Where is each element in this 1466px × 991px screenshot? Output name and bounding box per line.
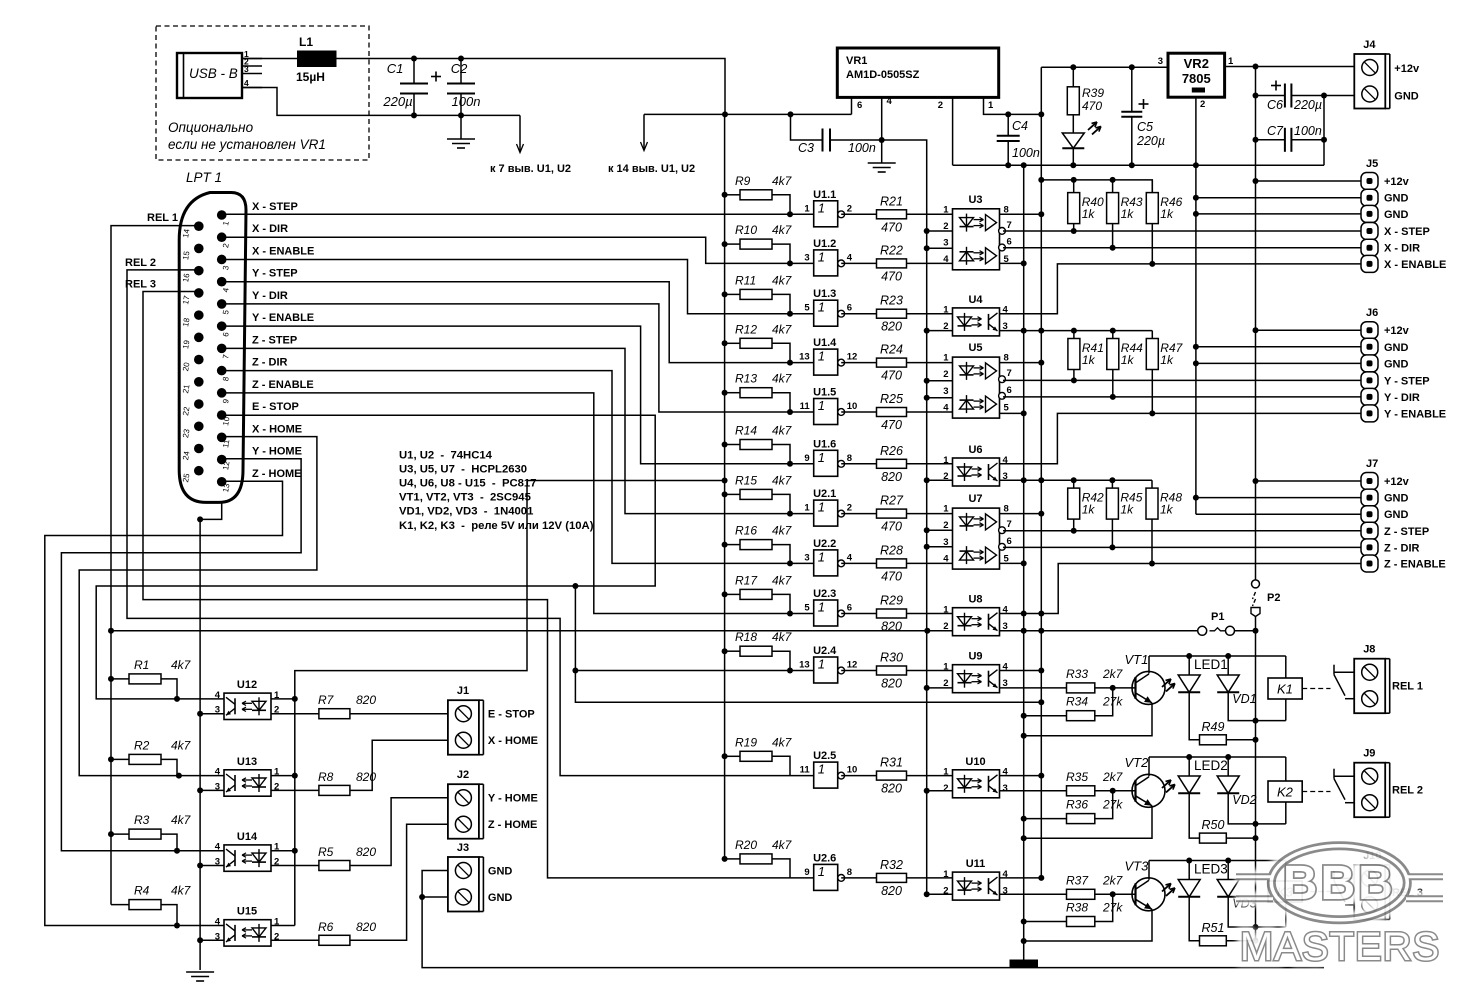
svg-text:U12: U12 <box>237 679 257 691</box>
inverter gate U2.3 <box>804 588 852 626</box>
J6 +12 wire <box>1256 329 1362 331</box>
R40 group rail <box>1041 180 1152 193</box>
wire U2.5 output to R31 <box>841 775 876 777</box>
svg-text:4: 4 <box>244 78 249 88</box>
svg-text:R37: R37 <box>1066 873 1089 887</box>
wire LPT pin3 to U1.3 <box>222 259 814 313</box>
svg-text:6: 6 <box>1007 536 1012 547</box>
svg-text:VD1, VD2, VD3 - 1N4001: VD1, VD2, VD3 - 1N4001 <box>399 506 533 518</box>
jumper P2 <box>1251 580 1280 617</box>
U8 pin3 to P1 row <box>1000 630 1024 632</box>
REL labels <box>125 212 178 291</box>
svg-text:R18: R18 <box>735 630 757 644</box>
LPT ground stub <box>200 502 222 970</box>
wire R20 leads <box>725 858 740 860</box>
+5V host vertical rail <box>724 114 726 859</box>
R11 <box>735 273 793 299</box>
svg-text:4k7: 4k7 <box>171 813 192 827</box>
svg-text:J5: J5 <box>1366 158 1378 170</box>
wire R27 to optocoupler <box>907 513 953 515</box>
svg-text:1: 1 <box>943 662 949 673</box>
transistor VT1 <box>1125 652 1166 705</box>
svg-text:1: 1 <box>818 200 825 215</box>
svg-text:U10: U10 <box>965 756 985 768</box>
svg-text:1: 1 <box>818 349 825 364</box>
svg-text:VT1: VT1 <box>1125 652 1149 667</box>
svg-text:R51: R51 <box>1202 921 1225 935</box>
svg-text:R16: R16 <box>735 524 757 538</box>
junction rail LED1 <box>1186 653 1231 659</box>
wire U1.2 output to R22 <box>841 262 876 264</box>
junction dots USB filter <box>411 56 464 119</box>
U5 pin5 stub <box>1000 412 1024 414</box>
resistor R35 <box>1066 770 1124 796</box>
svg-text:4k7: 4k7 <box>772 322 793 336</box>
svg-text:U2.5: U2.5 <box>813 750 836 762</box>
LED LED2 <box>1160 757 1227 794</box>
svg-text:U11: U11 <box>966 858 986 870</box>
svg-text:220µ: 220µ <box>382 94 412 109</box>
junction E-STOP <box>174 583 578 702</box>
svg-text:4k7: 4k7 <box>171 658 192 672</box>
svg-text:LED1: LED1 <box>1194 657 1228 672</box>
wires R8 to J1 X-HOME <box>271 789 319 791</box>
J6 GND wires <box>1196 346 1361 348</box>
wire LED1 to R49 <box>1189 692 1199 740</box>
R27 <box>877 494 907 534</box>
svg-text:P1: P1 <box>1211 611 1224 623</box>
optocoupler U6 <box>943 444 1008 486</box>
VR2 pin2 to iso gnd <box>1195 97 1197 165</box>
R19 <box>735 735 793 761</box>
wire VT1 emitter <box>1024 703 1152 736</box>
arrow to pin 7 of U1 U2 <box>490 115 571 175</box>
svg-text:R39: R39 <box>1082 86 1104 100</box>
R2 <box>129 738 192 764</box>
host gnd vertical rail <box>926 231 928 894</box>
svg-text:1: 1 <box>818 398 825 413</box>
svg-text:U5: U5 <box>968 342 982 354</box>
svg-text:GND: GND <box>488 892 513 904</box>
host gnd rail top segment <box>882 140 927 231</box>
svg-text:U4: U4 <box>968 294 983 306</box>
wire USB pin4 to gnd row <box>242 88 520 116</box>
inverter gate U2.6 <box>804 852 852 890</box>
svg-text:Y - DIR: Y - DIR <box>252 290 288 302</box>
R3 <box>129 813 192 839</box>
wire P1 row from REL1 <box>111 630 953 632</box>
svg-text:+12v: +12v <box>1384 476 1410 488</box>
svg-text:R23: R23 <box>880 294 903 308</box>
svg-text:4: 4 <box>943 402 949 413</box>
junctions top rails <box>1021 64 1199 168</box>
diode VD2 <box>1217 757 1256 807</box>
svg-text:7: 7 <box>1007 220 1012 231</box>
wire LPT pin4 to U1.4 <box>222 282 814 363</box>
wire U2.2 output to R28 <box>841 562 876 564</box>
svg-text:R24: R24 <box>880 343 903 357</box>
svg-text:1: 1 <box>818 762 825 777</box>
svg-text:K1: K1 <box>1277 682 1293 697</box>
svg-text:470: 470 <box>881 269 902 283</box>
wire R50 to +12 rail <box>1226 837 1255 839</box>
svg-text:R14: R14 <box>735 424 757 438</box>
svg-text:R32: R32 <box>880 858 903 872</box>
svg-text:R19: R19 <box>735 735 757 749</box>
svg-text:100n: 100n <box>452 94 481 109</box>
R12 <box>735 322 793 348</box>
wire R2 leads <box>111 758 129 760</box>
optocoupler U4 <box>943 294 1008 336</box>
svg-text:AM1D-0505SZ: AM1D-0505SZ <box>846 69 920 81</box>
resistor R50 <box>1200 818 1227 843</box>
R32 <box>877 858 907 898</box>
svg-text:1: 1 <box>804 503 810 514</box>
optocoupler U3 <box>943 194 1012 270</box>
svg-text:820: 820 <box>881 782 902 796</box>
svg-text:X - ENABLE: X - ENABLE <box>1384 259 1446 271</box>
svg-text:R7: R7 <box>318 693 335 707</box>
svg-text:U14: U14 <box>237 831 258 843</box>
svg-text:R30: R30 <box>880 651 903 665</box>
resistor R39 <box>1067 67 1104 115</box>
svg-text:C5: C5 <box>1137 120 1153 134</box>
R41 <box>1068 339 1104 370</box>
svg-text:820: 820 <box>356 770 376 784</box>
wire R12 leads <box>725 342 740 344</box>
wire LPT pin7 to U2.1 <box>222 348 814 513</box>
svg-text:VR1: VR1 <box>846 55 867 67</box>
svg-text:470: 470 <box>881 369 902 383</box>
U5 pin8 stub <box>1000 362 1042 364</box>
svg-text:R31: R31 <box>880 756 903 770</box>
svg-text:Y - STEP: Y - STEP <box>252 268 298 280</box>
svg-text:820: 820 <box>881 884 902 898</box>
optocoupler U11 <box>943 858 1008 900</box>
junctions row 480 <box>1021 477 1116 483</box>
optocoupler U7 <box>943 493 1012 569</box>
svg-text:R1: R1 <box>134 658 149 672</box>
R44 <box>1107 339 1143 370</box>
R16 <box>735 524 793 550</box>
svg-text:R50: R50 <box>1202 818 1225 832</box>
svg-text:1: 1 <box>818 549 825 564</box>
svg-text:R13: R13 <box>735 372 757 386</box>
svg-text:6: 6 <box>847 603 852 614</box>
resistor R5 <box>318 845 376 871</box>
resistor R7 <box>318 693 376 719</box>
wire R19 leads <box>725 755 740 757</box>
svg-text:1k: 1k <box>1082 503 1096 517</box>
wire LPT pin5 to U1.5 <box>222 304 814 412</box>
svg-text:4: 4 <box>847 552 853 563</box>
diode VD3 <box>1217 861 1256 911</box>
svg-text:2: 2 <box>1200 99 1205 110</box>
svg-text:VT2: VT2 <box>1125 755 1150 770</box>
svg-text:470: 470 <box>881 418 902 432</box>
svg-text:220µ: 220µ <box>1136 134 1165 148</box>
wire REL1 vertical <box>111 226 199 905</box>
relay contact REL 2 <box>1334 769 1354 803</box>
wire R31 to optocoupler <box>907 775 953 777</box>
VR2 regulator 7805 <box>1158 53 1234 110</box>
inverter gate U2.4 <box>799 645 857 683</box>
svg-text:R6: R6 <box>318 920 334 934</box>
svg-text:1: 1 <box>943 869 949 880</box>
U3 pin6 X-DIR row <box>1003 247 1361 249</box>
svg-text:X - HOME: X - HOME <box>488 735 538 747</box>
svg-text:C3: C3 <box>798 141 814 155</box>
svg-text:E - STOP: E - STOP <box>488 709 535 721</box>
svg-text:GND: GND <box>1384 342 1409 354</box>
svg-text:1: 1 <box>1228 56 1234 67</box>
svg-text:7: 7 <box>1007 368 1012 379</box>
svg-text:GND: GND <box>488 866 513 878</box>
svg-text:Y - STEP: Y - STEP <box>1384 375 1430 387</box>
wire R16 leads <box>725 544 740 546</box>
capacitor C7 <box>1256 124 1325 152</box>
svg-text:4k7: 4k7 <box>772 223 793 237</box>
U7 pin6 Z-DIR row <box>1003 546 1361 548</box>
wire Z-HOME LPT pin13 loop to U15 <box>45 481 283 925</box>
junction C4 <box>1005 111 1044 168</box>
svg-text:4k7: 4k7 <box>772 424 793 438</box>
relay coil K3 <box>1268 881 1302 902</box>
svg-text:к 14 выв. U1, U2: к 14 выв. U1, U2 <box>608 163 695 175</box>
svg-text:R35: R35 <box>1066 770 1088 784</box>
R28 <box>877 543 907 583</box>
capacitor C6 <box>1256 81 1325 113</box>
inverter gate U2.5 <box>800 750 858 788</box>
svg-text:U1.6: U1.6 <box>813 438 836 450</box>
junctions R35 <box>1021 788 1116 822</box>
wire R33 R34 to base <box>1000 687 1067 689</box>
svg-text:3: 3 <box>244 64 249 74</box>
resistor R51 <box>1200 921 1227 946</box>
inverter gate U2.1 <box>804 488 852 526</box>
svg-text:REL 2: REL 2 <box>125 257 156 269</box>
svg-text:U1.3: U1.3 <box>813 288 836 300</box>
wires J3 gnd <box>422 871 1324 968</box>
wire U1.5 output to R25 <box>841 411 876 413</box>
svg-text:VT1, VT2, VT3 - 2SC945: VT1, VT2, VT3 - 2SC945 <box>399 492 531 504</box>
connector J7 <box>1361 458 1446 572</box>
svg-text:220µ: 220µ <box>1293 98 1322 112</box>
junction anode riser <box>292 478 728 854</box>
svg-text:J2: J2 <box>457 769 469 781</box>
svg-text:GND: GND <box>1384 509 1409 521</box>
inverter gate U1.6 <box>804 438 852 476</box>
wire U12 pin1 stub <box>271 698 295 700</box>
svg-text:U1.4: U1.4 <box>813 337 837 349</box>
svg-text:Z - ENABLE: Z - ENABLE <box>1384 559 1446 571</box>
svg-text:6: 6 <box>1007 385 1012 396</box>
svg-text:4k7: 4k7 <box>772 174 793 188</box>
transistor VT3 <box>1125 858 1166 911</box>
LPT signal labels <box>252 201 314 480</box>
svg-text:820: 820 <box>881 470 902 484</box>
inductor L1 <box>296 35 337 84</box>
wire LPT pin9 to U2.3 <box>222 393 814 614</box>
svg-text:E - STOP: E - STOP <box>252 401 299 413</box>
wires R6 to J2 Z-HOME <box>271 939 319 941</box>
inverter gate U2.2 <box>804 538 852 576</box>
R47 <box>1146 339 1183 370</box>
capacitor C1 <box>382 59 441 116</box>
svg-text:1: 1 <box>818 450 825 465</box>
svg-text:2: 2 <box>943 621 948 632</box>
svg-text:820: 820 <box>356 920 376 934</box>
svg-text:GND: GND <box>1384 209 1409 221</box>
svg-text:U2.1: U2.1 <box>813 488 836 500</box>
R1 <box>129 658 192 684</box>
wire LPT pin8 to U2.2 <box>222 371 814 564</box>
svg-text:R21: R21 <box>880 194 903 208</box>
svg-text:100n: 100n <box>1012 146 1040 160</box>
svg-text:R20: R20 <box>735 838 757 852</box>
optocoupler U5 <box>943 342 1012 418</box>
text optional note <box>168 120 326 152</box>
wire R37 R38 to base <box>1000 893 1067 895</box>
wire REL3 loop to U2.6 <box>143 292 814 878</box>
wire E-STOP branch to U2.4 and E-STOP main <box>575 586 1041 702</box>
svg-text:1k: 1k <box>1160 503 1174 517</box>
svg-text:2k7: 2k7 <box>1102 873 1124 887</box>
svg-text:8: 8 <box>847 867 852 878</box>
U7 pin5 stub <box>1000 562 1024 564</box>
svg-text:C1: C1 <box>387 61 404 76</box>
svg-text:4k7: 4k7 <box>772 630 793 644</box>
wire R28 to optocoupler <box>907 562 953 564</box>
wire Y-HOME LPT pin12 loop to U14 <box>61 459 301 851</box>
R30 <box>877 651 907 691</box>
wire R24 to optocoupler <box>907 362 953 364</box>
svg-text:U7: U7 <box>968 493 982 505</box>
J5 +12 wire <box>1256 180 1362 182</box>
wire LPT pin1 X-STEP to U1.1 <box>222 213 814 215</box>
svg-text:5: 5 <box>804 603 810 614</box>
R26 <box>877 444 907 484</box>
LPT left column pins 14-25 <box>181 221 203 483</box>
+12 rail lower after P2 <box>1255 617 1257 941</box>
svg-text:GND: GND <box>1394 91 1419 103</box>
U11 pin4 stub <box>1000 877 1042 879</box>
svg-text:1: 1 <box>818 864 825 879</box>
svg-text:J8: J8 <box>1363 644 1375 656</box>
svg-text:4: 4 <box>847 252 853 263</box>
svg-text:VR2: VR2 <box>1184 56 1209 71</box>
wire R17 leads <box>725 593 740 595</box>
rail above LED3 <box>1149 860 1286 862</box>
svg-text:6: 6 <box>1007 237 1012 248</box>
connector J3 <box>448 842 513 912</box>
svg-text:X - DIR: X - DIR <box>252 223 288 235</box>
svg-text:R3: R3 <box>134 813 150 827</box>
svg-text:9: 9 <box>804 867 809 878</box>
svg-text:GND: GND <box>1384 493 1409 505</box>
wire LPT pin2 to U1.2 <box>222 237 814 263</box>
connector J9 <box>1354 748 1390 818</box>
wire R49 to +12 rail <box>1226 739 1255 741</box>
VR1 DC-DC converter <box>837 48 1041 165</box>
svg-text:VD2: VD2 <box>1232 793 1256 807</box>
wire VD2 bottom row <box>1228 793 1286 824</box>
svg-text:K2: K2 <box>1277 785 1294 800</box>
resistor R8 <box>318 770 376 795</box>
R15 <box>735 473 793 499</box>
svg-text:10: 10 <box>847 401 858 412</box>
svg-text:12: 12 <box>847 352 858 363</box>
svg-text:Y - HOME: Y - HOME <box>488 793 538 805</box>
svg-text:11: 11 <box>800 401 811 412</box>
U4 pin3 emitter rail to R41 group <box>1000 330 1153 332</box>
J7 GND wires <box>1196 497 1361 499</box>
U5 pin6 Y-DIR row <box>1003 396 1361 398</box>
svg-text:J9: J9 <box>1363 748 1375 760</box>
R23 <box>877 294 907 334</box>
junctions C6 C7 <box>1253 93 1328 143</box>
dashed link K2 <box>1302 791 1330 793</box>
svg-text:Z - HOME: Z - HOME <box>488 819 538 831</box>
R40 <box>1068 193 1104 224</box>
R13 <box>735 372 793 398</box>
Y-ENABLE row with U6 riser <box>1000 413 1362 463</box>
svg-text:12: 12 <box>847 660 858 671</box>
svg-text:X - STEP: X - STEP <box>252 201 298 213</box>
svg-text:4: 4 <box>215 767 221 778</box>
svg-text:3: 3 <box>804 552 809 563</box>
svg-text:R4: R4 <box>134 884 150 898</box>
junction rail LED2 <box>1186 754 1231 760</box>
inverter gate U1.1 <box>804 189 852 227</box>
svg-text:U9: U9 <box>968 651 982 663</box>
svg-text:1: 1 <box>943 305 949 316</box>
wire U13 pin1 stub <box>271 775 295 777</box>
svg-text:3: 3 <box>943 238 948 249</box>
R4 <box>129 884 192 910</box>
R42 <box>1068 488 1104 519</box>
wire VT2 emitter <box>1024 806 1152 838</box>
R25 <box>877 392 907 432</box>
svg-text:2: 2 <box>943 369 948 380</box>
wire LPT pin6 to U1.6 <box>222 326 814 464</box>
wire R25 to optocoupler <box>907 411 953 413</box>
iso gnd bar <box>1010 960 1039 968</box>
optocoupler U14 <box>215 831 280 871</box>
wire K2 leads <box>1285 757 1287 781</box>
svg-text:2: 2 <box>938 100 943 111</box>
relay contact REL 1 <box>1334 665 1354 699</box>
wire U14 pin1 stub <box>271 850 295 852</box>
dashed link K1 <box>1302 688 1330 690</box>
wire VD1 bottom row <box>1228 692 1286 720</box>
svg-text:100n: 100n <box>1294 124 1322 138</box>
svg-text:X - STEP: X - STEP <box>1384 226 1430 238</box>
svg-text:1k: 1k <box>1160 353 1174 367</box>
svg-text:4k7: 4k7 <box>772 473 793 487</box>
wire K3 leads <box>1285 861 1287 882</box>
LPT right column pins 1-13 <box>217 210 232 493</box>
transistor VT2 <box>1125 755 1166 808</box>
R21 <box>877 194 907 234</box>
svg-text:J4: J4 <box>1363 39 1376 51</box>
wire R45 leads <box>1111 480 1113 488</box>
svg-text:J3: J3 <box>457 842 469 854</box>
svg-text:820: 820 <box>356 693 376 707</box>
svg-text:LPT 1: LPT 1 <box>186 170 222 185</box>
svg-text:REL 1: REL 1 <box>147 212 178 224</box>
R24 <box>877 343 907 383</box>
